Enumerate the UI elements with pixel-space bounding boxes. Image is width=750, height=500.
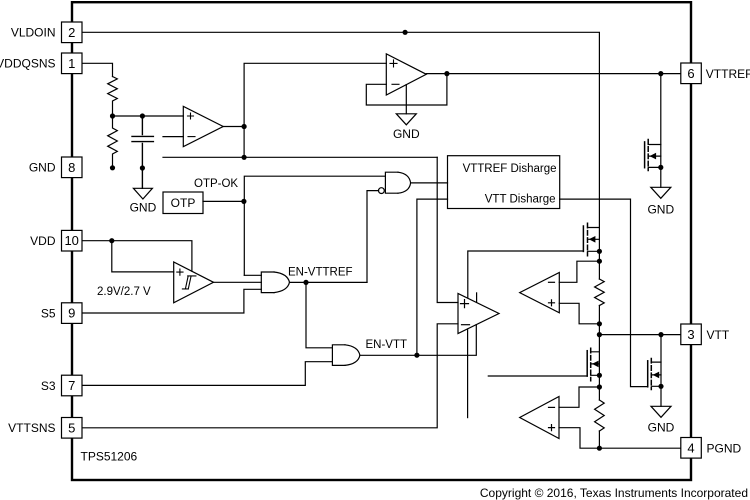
pin 9 S5 [62,303,83,324]
wire EN-VTTREF to U3 bubble [367,191,379,283]
wire U9 minus input [559,387,599,407]
or-gate U3 (discharge control) [385,172,398,193]
node upper sense top [597,259,602,264]
svg-text:GND: GND [647,203,674,217]
svg-text:VLDOIN: VLDOIN [11,26,56,40]
wire EN-VTTREF net [290,281,368,283]
svg-text:VDDQSNS: VDDQSNS [0,57,56,71]
svg-text:VTT Disharge: VTT Disharge [485,194,556,206]
ground symbol below U2 [396,114,416,125]
wire VDD pin10 to U5 [82,241,192,272]
wire U2 feedback loop [366,74,447,105]
wire reference line y158 [163,156,437,158]
OTP block [163,192,203,214]
wire PGND node to pin 4 [599,447,680,449]
wire VLDOIN rail (pin2 to high-side FET drain) [82,32,599,227]
svg-text:GND: GND [648,421,675,435]
svg-text:GND: GND [393,127,420,141]
wire U2 output to VTTREF pin 6 [426,73,681,75]
capacitor C1 [132,116,153,188]
svg-text:1: 1 [68,56,75,71]
wire U7 soft-start line below [467,329,469,418]
wire VTTSNS pin5 to error amp - input [82,324,458,428]
svg-text:PGND: PGND [707,441,742,455]
node U2 output feedback tap [444,71,449,76]
transistor Q1 (high-side FET) [582,226,584,251]
pin 4 PGND [681,438,702,459]
svg-text:8: 8 [68,160,75,175]
op-amp U1 (VDDQSNS divider comparator) [183,106,223,146]
discharge logic box [448,156,560,209]
svg-text:S5: S5 [41,306,56,320]
op-amp U2 (VTTREF buffer) [386,54,426,95]
svg-text:2: 2 [68,25,75,40]
wire divider midpoint to comparator + input [113,115,184,117]
node Q4 source junction [658,384,663,389]
node Q3 source junction [658,165,663,170]
wire pin1 VDDQSNS to divider [82,63,113,76]
svg-text:10: 10 [64,233,78,248]
node lower sense top [597,384,602,389]
node divider midpoint [110,113,115,118]
resistor R1 (divider top) [108,77,118,117]
svg-text:VTTREF: VTTREF [706,67,750,81]
op-amp U7 (VTT error amplifier) [458,294,499,334]
svg-text:EN-VTTREF: EN-VTTREF [288,267,353,279]
ground symbol below Q4 [651,406,671,417]
wire EN-VTTREF down to U6 [306,282,332,347]
IC boundary box TPS51206 [72,2,691,480]
node Q2 source junction [597,373,602,378]
and-gate U4 (EN-VTTREF) [261,272,274,293]
svg-text:OTP-OK: OTP-OK [194,178,238,190]
wire Q3 drain to VTTREF line [660,74,662,188]
svg-text:S3: S3 [41,379,56,393]
node capacitor top [140,113,145,118]
node OTP output junction [241,199,246,204]
transistor Q2 (low-side FET) [586,351,588,376]
wire U5 output [214,281,262,283]
and-gate U6 (EN-VTT) [332,345,345,366]
transistor Q4 (VTT discharge FET) [647,361,649,387]
node upper sense bottom [597,321,602,326]
wire Q4 drain to VTT node [660,335,662,407]
node VTT left [597,332,602,337]
node on VLDOIN rail [403,30,408,35]
wire U8 plus input [559,303,599,324]
wire OTP output [203,200,244,202]
svg-text:OTP: OTP [171,196,196,210]
node Q1 source junction [597,249,602,254]
wire S5 pin9 to U4 [82,289,261,313]
node capacitor bottom [140,165,145,170]
node EN-VTTREF junction [303,280,308,285]
svg-text:EN-VTT: EN-VTT [366,339,408,351]
svg-text:GND: GND [130,201,157,215]
wire EN-VTT into discharge box [417,199,448,355]
wire U1 output [223,63,386,157]
ground symbol below Q3 [651,187,671,198]
comparator U8 (upper gate driver) [520,273,560,313]
svg-text:4: 4 [687,440,694,455]
transistor Q3 (VTTREF discharge FET) [644,142,646,168]
node VTTREF pin junction [658,71,663,76]
svg-text:GND: GND [29,161,56,175]
node EN-VTT junction [414,353,419,358]
pin 8 GND [62,157,83,178]
wire reference to error amp + input [437,157,458,302]
wire EN-VTT net [360,325,476,356]
comparator U9 (lower gate driver) [520,397,559,439]
wire OTP-OK into U4 [244,274,261,276]
svg-text:VDD: VDD [30,234,56,248]
wire U9 plus input [559,428,599,449]
resistor R4 (lower sense) [595,400,605,431]
wire U8 minus input [559,261,599,282]
pin 3 VTT [681,324,702,345]
svg-text:VTTREF Disharge: VTTREF Disharge [463,163,557,175]
resistor R2 (divider bottom) [108,116,118,166]
wire output conductor rail [598,228,600,449]
wire low-side FET gate line [488,375,587,377]
comparator U5 (VDD UVLO 2.9V/2.7V) [174,262,214,303]
svg-text:9: 9 [68,306,75,321]
pin 5 VTTSNS [62,418,83,439]
svg-text:VTT: VTT [707,328,730,342]
node U1 output junction [242,124,247,129]
pin 10 VDD [62,230,83,251]
wire VTT node to pin 3 [599,334,680,336]
svg-text:VTTSNS: VTTSNS [8,421,55,435]
pin 1 VDDQSNS [62,53,83,74]
svg-text:3: 3 [687,327,694,342]
resistor R3 (upper sense) [595,279,605,305]
node VDD junction [109,238,114,243]
wire U3 output to discharge box [411,182,448,184]
svg-text:6: 6 [687,66,694,81]
svg-text:5: 5 [68,420,75,435]
node R2 bottom terminal [110,165,115,170]
svg-text:2.9V/2.7 V: 2.9V/2.7 V [97,286,151,298]
svg-text:Copyright © 2016, Texas Instru: Copyright © 2016, Texas Instruments Inco… [480,486,748,500]
wire VTT discharge gate drive [560,199,648,387]
wire OTP-OK net [244,176,385,275]
node VTT right [658,332,663,337]
pin 2 VLDOIN [62,22,83,43]
pin 7 S3 [62,375,83,396]
svg-text:7: 7 [68,378,75,393]
wire S3 pin7 to U6 [82,362,332,386]
wire U2 ground stem [405,85,407,114]
svg-text:TPS51206: TPS51206 [81,450,138,464]
pin 6 VTTREF [681,63,702,84]
node at reference line [242,155,247,160]
wire U1 minus input stub [163,136,183,138]
wire U7 top line to high FET gate [468,251,584,298]
inverter bubble on U3 input [379,188,385,194]
wire U7 top tick [476,293,478,303]
ground symbol below C1 [133,188,152,199]
node PGND junction [597,446,602,451]
